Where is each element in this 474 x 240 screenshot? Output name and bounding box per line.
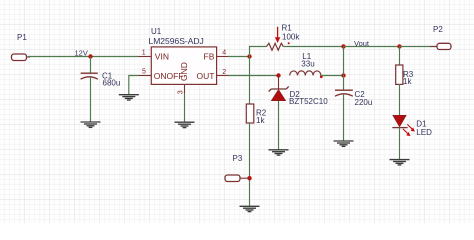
junction D2 node <box>276 73 280 77</box>
wire FB node up to R1 row <box>250 47 267 57</box>
pin 2 stub <box>217 75 228 77</box>
wire R2 to P3 node and ground <box>249 123 251 206</box>
wire FB node down to R2 <box>249 57 251 105</box>
svg-text:100k: 100k <box>282 32 300 41</box>
diode D2 zener <box>269 76 289 150</box>
svg-text:BZT52C10: BZT52C10 <box>289 97 328 106</box>
capacitor C1 <box>81 73 98 122</box>
ground (C1) <box>81 122 101 127</box>
svg-text:OUT: OUT <box>197 71 215 81</box>
svg-text:3: 3 <box>178 90 185 94</box>
wire C2 node down to C2 <box>343 76 345 91</box>
junction FB node <box>247 54 251 58</box>
wire L1 to C2 node <box>321 75 344 77</box>
pin 5 stub <box>139 75 152 77</box>
svg-text:220u: 220u <box>355 98 373 107</box>
svg-text:680u: 680u <box>103 79 121 88</box>
svg-text:5: 5 <box>142 68 146 75</box>
svg-text:12V: 12V <box>75 48 88 57</box>
junction P3 node <box>247 176 251 180</box>
ground (ONOFF) <box>119 95 139 100</box>
wire FB to node <box>228 56 250 58</box>
ground (U1 GND) <box>175 122 195 127</box>
wire ONOFF to ground <box>129 76 139 95</box>
wire to C1 <box>90 57 92 74</box>
wire R3 node down to R3 <box>399 47 401 66</box>
wire OUT to D2 node <box>228 75 279 77</box>
IC U1 body <box>151 47 216 85</box>
svg-text:2: 2 <box>222 69 226 76</box>
svg-text:LM2596S-ADJ: LM2596S-ADJ <box>149 36 204 46</box>
resistor R2 <box>246 104 254 123</box>
svg-text:33u: 33u <box>301 60 314 69</box>
wire R3 node to P2 <box>400 46 438 48</box>
svg-text:FB: FB <box>204 51 215 61</box>
svg-text:GND: GND <box>179 62 189 81</box>
svg-text:1k: 1k <box>256 116 265 125</box>
pin 1 stub <box>139 56 152 58</box>
diode D1 LED <box>392 115 415 159</box>
wire R3 to D1 <box>399 84 401 115</box>
ground (C2) <box>334 141 354 146</box>
wire U1 GND pin to ground <box>184 93 186 122</box>
svg-text:4: 4 <box>222 49 226 56</box>
ground (D1) <box>390 160 410 165</box>
svg-text:1: 1 <box>142 49 146 56</box>
wire R1 to Vout node <box>283 46 343 48</box>
pin 3 stub <box>184 84 186 93</box>
wire Vout node down to C2 node <box>343 47 345 76</box>
capacitor C2 <box>335 90 353 140</box>
svg-text:P2: P2 <box>433 25 443 34</box>
svg-text:LED: LED <box>416 128 432 137</box>
svg-text:1k: 1k <box>403 77 412 86</box>
svg-text:P3: P3 <box>233 154 243 163</box>
ground (P3) <box>240 206 260 211</box>
inductor L1 <box>290 71 323 78</box>
wire P1 to U1 VIN <box>28 56 139 58</box>
wire Vout node to R3 node <box>344 46 400 48</box>
resistor R1 (variable) <box>267 27 290 51</box>
resistor R3 <box>396 65 403 84</box>
connector P1 <box>12 54 31 61</box>
svg-text:R1: R1 <box>282 24 293 33</box>
junction L1/C2 node <box>341 73 345 77</box>
connector P2 <box>430 43 451 49</box>
svg-text:U1: U1 <box>151 27 162 36</box>
svg-text:VIN: VIN <box>155 51 169 61</box>
connector P3 <box>225 175 250 182</box>
ground (D2) <box>269 150 289 155</box>
junction 12V node <box>88 54 92 58</box>
junction Vout node <box>341 44 345 48</box>
pin 4 stub <box>217 56 228 58</box>
svg-text:P1: P1 <box>17 33 27 42</box>
junction R3 node <box>397 44 401 48</box>
